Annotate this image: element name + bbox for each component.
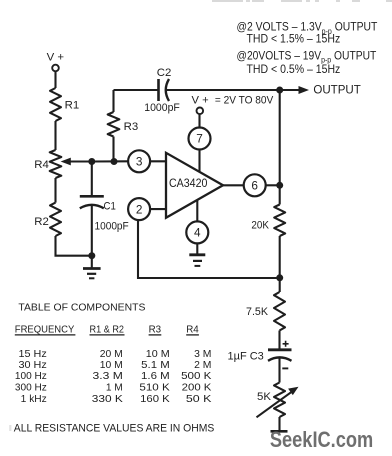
svg-text:C2: C2 <box>157 67 172 79</box>
svg-text:1.6 M: 1.6 M <box>141 371 170 382</box>
svg-text:V +: V + <box>192 95 209 107</box>
svg-text:30 Hz: 30 Hz <box>19 360 47 371</box>
svg-text:50 K: 50 K <box>186 394 212 405</box>
svg-text:C1: C1 <box>104 200 116 212</box>
svg-text:20K: 20K <box>251 219 269 231</box>
svg-text:10 M: 10 M <box>146 349 170 360</box>
svg-text:1µF C3: 1µF C3 <box>228 350 264 362</box>
svg-text:3.3 M: 3.3 M <box>93 371 123 382</box>
svg-text:510 K: 510 K <box>139 383 170 394</box>
svg-text:5K: 5K <box>257 391 271 403</box>
svg-text:6: 6 <box>251 179 258 193</box>
svg-text:SeekIC.com: SeekIC.com <box>270 427 373 452</box>
svg-text:200 K: 200 K <box>182 383 212 394</box>
svg-text:500 K: 500 K <box>181 371 212 382</box>
svg-text:7: 7 <box>196 132 203 146</box>
svg-text:R1 & R2: R1 & R2 <box>90 324 125 335</box>
svg-text:330 K: 330 K <box>92 394 123 405</box>
svg-text:4: 4 <box>194 226 201 240</box>
svg-text:2: 2 <box>136 202 143 216</box>
svg-text:R4: R4 <box>34 159 49 171</box>
svg-text:R1: R1 <box>65 99 80 111</box>
svg-text:5.1 M: 5.1 M <box>141 360 170 371</box>
svg-text:OUTPUT: OUTPUT <box>313 83 361 97</box>
svg-text:V +: V + <box>47 52 65 64</box>
svg-text:= 2V TO 80V: = 2V TO 80V <box>215 95 274 107</box>
svg-text:1000pF: 1000pF <box>95 220 129 232</box>
svg-text:3: 3 <box>136 155 143 169</box>
svg-text:R3: R3 <box>124 121 139 133</box>
svg-text:R3: R3 <box>149 324 162 335</box>
svg-text:2 M: 2 M <box>194 360 211 371</box>
svg-text:ALL RESISTANCE VALUES ARE IN O: ALL RESISTANCE VALUES ARE IN OHMS <box>14 422 215 434</box>
svg-text:THD < 1.5% – 15Hz: THD < 1.5% – 15Hz <box>247 32 341 46</box>
svg-text:100 Hz: 100 Hz <box>15 371 47 382</box>
svg-text:R4: R4 <box>186 324 199 335</box>
svg-text:7.5K: 7.5K <box>246 306 268 318</box>
svg-text:300 Hz: 300 Hz <box>15 383 47 394</box>
svg-text:THD < 0.5% – 15Hz: THD < 0.5% – 15Hz <box>247 62 341 76</box>
svg-text:1 kHz: 1 kHz <box>21 394 47 405</box>
svg-text:160 K: 160 K <box>140 394 170 405</box>
svg-text:10 M: 10 M <box>100 360 123 371</box>
svg-text:TABLE OF COMPONENTS: TABLE OF COMPONENTS <box>18 301 145 313</box>
svg-text:20 M: 20 M <box>100 349 123 360</box>
svg-text:FREQUENCY: FREQUENCY <box>15 324 75 335</box>
svg-text:R2: R2 <box>34 216 49 228</box>
svg-text:15 Hz: 15 Hz <box>19 349 47 360</box>
svg-text:3 M: 3 M <box>194 349 211 360</box>
svg-text:1 M: 1 M <box>106 383 123 394</box>
svg-text:CA3420: CA3420 <box>169 176 208 190</box>
svg-text:1000pF: 1000pF <box>144 102 180 114</box>
